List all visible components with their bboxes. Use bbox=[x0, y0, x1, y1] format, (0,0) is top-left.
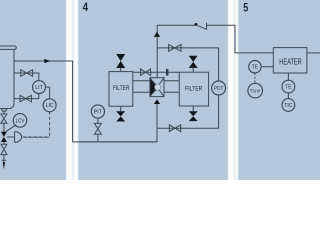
svg-text:5: 5 bbox=[243, 3, 248, 15]
svg-text:TIC: TIC bbox=[284, 103, 293, 109]
svg-text:TE: TE bbox=[252, 65, 259, 71]
svg-text:4: 4 bbox=[83, 2, 89, 14]
svg-text:LIC: LIC bbox=[46, 103, 54, 109]
svg-text:LIT: LIT bbox=[35, 85, 43, 91]
svg-text:LCV: LCV bbox=[16, 118, 25, 124]
svg-text:FILTER: FILTER bbox=[113, 85, 130, 92]
svg-text:HEATER: HEATER bbox=[279, 57, 302, 66]
svg-text:PIT: PIT bbox=[94, 109, 102, 115]
svg-text:TE: TE bbox=[285, 85, 292, 91]
svg-text:PDT: PDT bbox=[214, 86, 224, 92]
svg-text:FILTER: FILTER bbox=[185, 86, 203, 93]
svg-text:TSHH: TSHH bbox=[250, 88, 261, 93]
